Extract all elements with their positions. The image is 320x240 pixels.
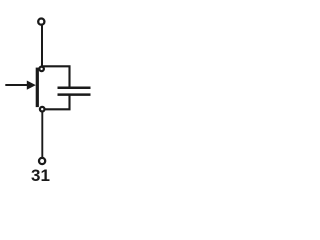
node source junction (small open circle) — [40, 107, 45, 112]
wire source vertical — [41, 112, 43, 157]
transistor Q1 gate wire — [5, 84, 28, 86]
svg-text:31: 31 — [31, 166, 50, 185]
wire bottom horizontal from capacitor branch — [43, 95, 70, 109]
wire top horizontal to capacitor branch — [41, 66, 70, 87]
terminal bottom (open circle) — [39, 158, 45, 164]
terminal top (open circle) — [38, 19, 44, 25]
capacitor C plate top — [58, 86, 91, 89]
background — [0, 0, 94, 190]
wire drain vertical — [41, 25, 43, 66]
transistor Q1 channel bar — [36, 68, 39, 108]
capacitor C plate bottom — [58, 93, 91, 96]
transistor Q1 gate arrowhead — [27, 81, 36, 90]
node drain junction (small open circle) — [39, 67, 44, 72]
